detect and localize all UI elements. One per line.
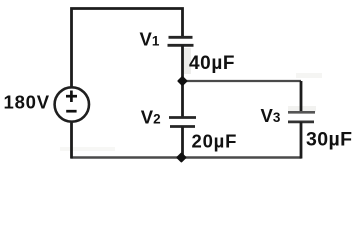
svg-text:20µF: 20µF: [192, 131, 238, 152]
svg-text:40µF: 40µF: [189, 53, 235, 74]
svg-text:180V: 180V: [4, 92, 50, 113]
svg-text:30µF: 30µF: [306, 128, 352, 150]
